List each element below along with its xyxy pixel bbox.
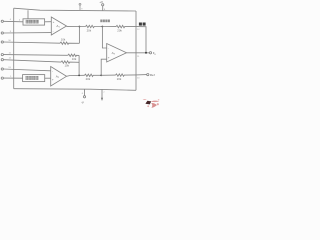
wire input pin 3 to A1 inverting input [3, 32, 51, 34]
terminal output [149, 52, 151, 54]
junction A1 output [79, 26, 81, 28]
overvoltage protection box U2 [23, 75, 45, 82]
wire A3 non-inverting input [101, 59, 107, 75]
resistor 10k middle [68, 54, 79, 56]
svg-text:12: 12 [137, 29, 140, 31]
wire input pin 1 [3, 77, 22, 79]
op-amp A2 [51, 67, 67, 87]
svg-text:A3: A3 [112, 51, 116, 56]
terminal RG2 [1, 59, 3, 61]
svg-text:20k: 20k [86, 77, 91, 81]
svg-text:+: + [108, 56, 110, 60]
svg-text:20k: 20k [117, 28, 122, 32]
svg-text:20k: 20k [117, 77, 122, 81]
outer frame right border [135, 11, 137, 90]
junction A2 output [78, 75, 80, 77]
watermark [143, 99, 160, 108]
terminal gain tap middle [1, 54, 3, 56]
wire sense external [136, 27, 146, 53]
svg-text:+: + [53, 20, 55, 24]
svg-text:20k: 20k [87, 28, 92, 32]
terminal ref [147, 74, 149, 76]
label offset null [100, 20, 110, 23]
wire vertical gain taps to A2 output [78, 55, 80, 75]
svg-text:1: 1 [10, 76, 12, 78]
resistor 20k upper right (sense) [116, 25, 136, 27]
svg-text:10k: 10k [72, 57, 77, 61]
wire A3 inverting input [102, 27, 106, 49]
terminal pin 3 [1, 32, 3, 34]
wire RG2 row [3, 60, 61, 62]
wire input pin 4 [3, 20, 23, 23]
svg-text:-: - [108, 46, 109, 50]
wire A1 output feedback vertical [78, 27, 80, 44]
wire input pin 13 to A2 inverting input [3, 69, 50, 71]
svg-text:13: 13 [8, 67, 11, 69]
svg-text:-: - [52, 69, 53, 73]
net label dark [139, 23, 146, 26]
outer frame left rail [13, 8, 15, 89]
svg-text:Ref: Ref [150, 73, 155, 77]
wire to lower right resistor [101, 74, 115, 76]
svg-text:10k: 10k [61, 37, 66, 41]
svg-text:3: 3 [10, 31, 12, 33]
wire box to A2 + input [45, 77, 51, 79]
junction sense/output [145, 52, 147, 54]
bottom pin 7 ground [101, 89, 106, 101]
outer frame top rail [14, 8, 136, 11]
op-amp A3 [107, 44, 127, 63]
svg-text:11: 11 [9, 52, 12, 54]
resistor 10k A1 feedback [60, 42, 79, 44]
resistor 20k upper left [86, 25, 103, 27]
wire A1 output row [67, 25, 86, 27]
bottom pin 6 -V supply [81, 89, 86, 105]
svg-text:F0: F0 [153, 51, 157, 56]
svg-text:16: 16 [8, 40, 11, 42]
wire A3 output [127, 52, 150, 54]
wire stub from top rail to protection box [27, 10, 29, 19]
svg-text:6: 6 [82, 93, 84, 95]
terminal pin 1 [1, 77, 3, 79]
wire RG1 row [3, 42, 60, 43]
overvoltage protection box U1 [23, 19, 45, 25]
junction A3 non-inverting node [100, 74, 102, 76]
svg-text:A2: A2 [56, 75, 60, 80]
svg-text:10k: 10k [65, 63, 70, 67]
pin number labels right [137, 29, 140, 79]
pin number labels left [8, 19, 21, 78]
terminal RG1 [1, 41, 3, 43]
resistor 10k A2 feedback [61, 61, 79, 63]
svg-text:10: 10 [137, 78, 140, 80]
outer frame bottom rail [14, 89, 136, 91]
top pin +V supply [99, 0, 106, 11]
svg-text:12: 12 [9, 58, 12, 60]
wire ref external [136, 74, 147, 76]
wire A2 output row [67, 75, 85, 76]
junction A3 inverting node [102, 26, 104, 28]
wire gain tap middle row [3, 54, 67, 57]
svg-text:4: 4 [10, 19, 12, 21]
resistor 20k lower right (ref) [116, 74, 137, 76]
resistor 20k lower left [85, 74, 102, 76]
svg-text:11: 11 [137, 56, 140, 58]
svg-text:4: 4 [19, 19, 21, 21]
svg-text:7: 7 [103, 92, 105, 94]
op-amp A1 [51, 17, 66, 35]
top pin 9 [79, 3, 83, 10]
svg-text:-: - [53, 29, 54, 33]
svg-text:+: + [52, 78, 54, 82]
wire to upper right resistor [102, 26, 116, 28]
wire box to A1 + input [45, 21, 52, 23]
svg-text:A1: A1 [56, 24, 60, 29]
terminal pin 13 [1, 68, 3, 70]
terminal pin 4 [1, 20, 3, 22]
svg-text:-V: -V [81, 101, 84, 105]
